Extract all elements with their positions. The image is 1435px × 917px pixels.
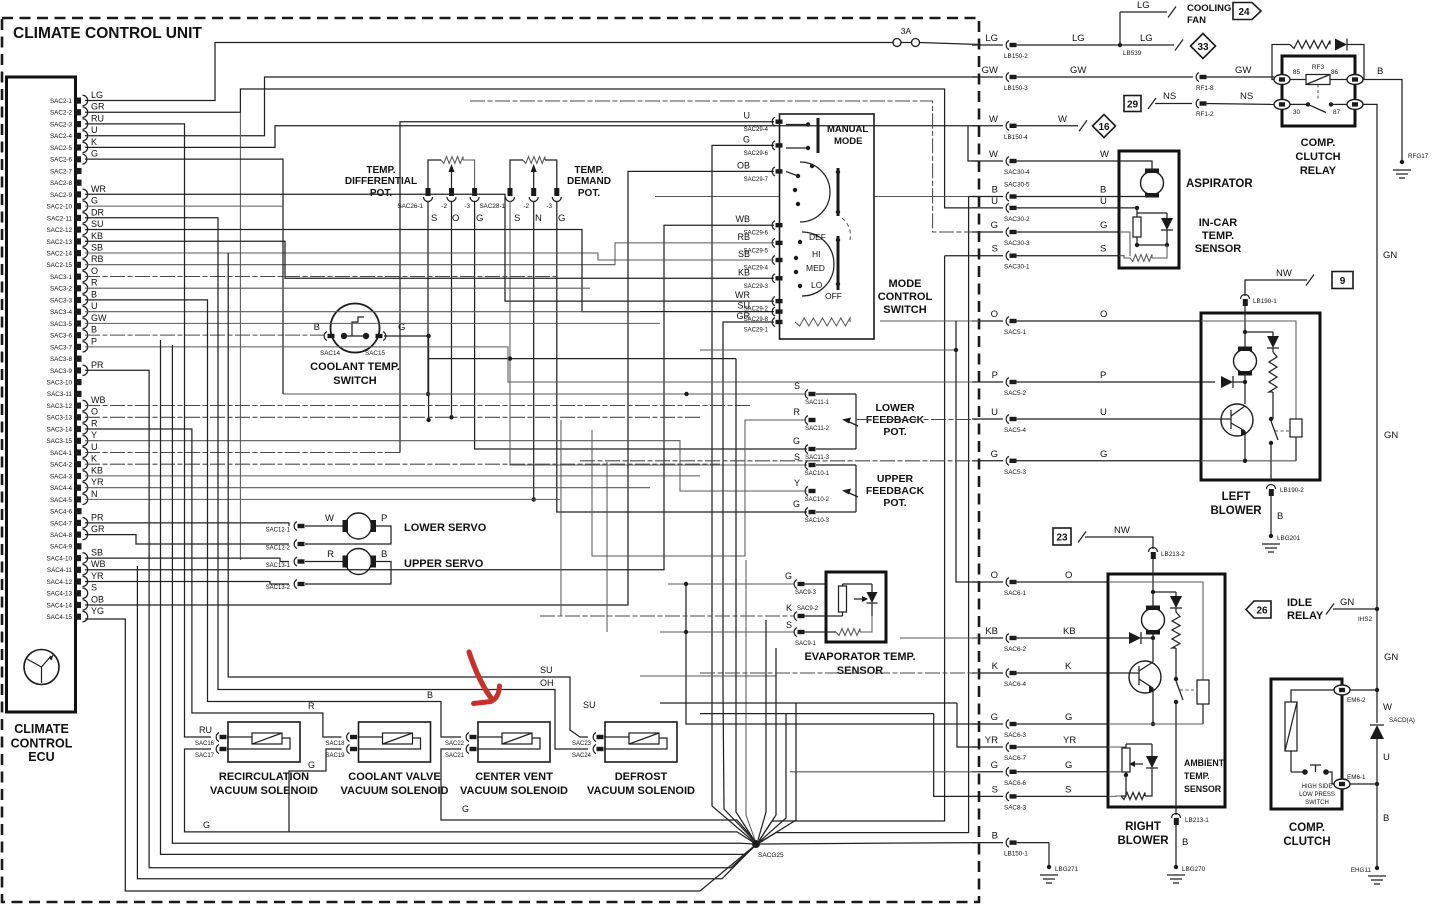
- svg-text:P: P: [91, 336, 97, 346]
- svg-text:U: U: [1383, 752, 1390, 763]
- svg-text:CLIMATE CONTROL UNIT: CLIMATE CONTROL UNIT: [13, 25, 202, 42]
- svg-text:G: G: [991, 220, 998, 231]
- svg-text:FAN: FAN: [1187, 15, 1206, 26]
- svg-text:P: P: [992, 370, 998, 381]
- svg-text:LBG271: LBG271: [1055, 866, 1079, 873]
- svg-text:TEMP.: TEMP.: [366, 165, 395, 176]
- svg-text:G: G: [91, 196, 98, 206]
- svg-text:B: B: [992, 185, 998, 196]
- svg-text:POT.: POT.: [370, 188, 392, 199]
- wire B segment to ground EHG11: [1351, 784, 1390, 874]
- svg-text:YR: YR: [1063, 735, 1076, 746]
- svg-text:IHS2: IHS2: [1358, 616, 1372, 623]
- svg-text:SAC10-3: SAC10-3: [805, 518, 830, 524]
- wire YR SAC4-12 to upper servo return: [85, 582, 289, 585]
- svg-text:SAC9-1: SAC9-1: [795, 641, 817, 647]
- label COMP. CLUTCH: [1283, 822, 1330, 848]
- svg-text:CLIMATE: CLIMATE: [14, 722, 69, 736]
- connector RF1-2 on NS wire: [1196, 91, 1274, 118]
- evaporator temp sensor SAC9 box: [804, 572, 915, 677]
- connector LB150-2 (LG) at enclosure border: [972, 33, 1120, 60]
- svg-text:VACUUM SOLENOID: VACUUM SOLENOID: [210, 785, 318, 797]
- wire B to ground LBG270: [1174, 825, 1206, 873]
- svg-text:30: 30: [1293, 109, 1301, 116]
- svg-text:SAC11-3: SAC11-3: [805, 455, 830, 461]
- svg-text:O: O: [452, 213, 459, 224]
- svg-text:G: G: [991, 712, 998, 723]
- wire OB to mode switch from SAC4-14: [85, 171, 774, 605]
- svg-text:DEMAND: DEMAND: [567, 176, 611, 187]
- svg-text:TEMP.: TEMP.: [1202, 230, 1234, 242]
- svg-text:SAC2-10: SAC2-10: [46, 204, 72, 211]
- svg-text:P: P: [1100, 370, 1106, 381]
- svg-text:Y: Y: [91, 430, 97, 440]
- svg-text:MODE: MODE: [889, 278, 922, 290]
- pin SAC3-14 (R): [46, 418, 98, 434]
- rotary switch upper wafer: [786, 162, 850, 240]
- svg-text:86: 86: [1331, 69, 1339, 76]
- svg-text:SU: SU: [91, 219, 104, 229]
- connector SAC6-2 (KB) at enclosure border: [972, 626, 1129, 653]
- splice SACG25 star point: [752, 840, 784, 859]
- wire GW row SAC3-5 extension: [85, 322, 660, 324]
- svg-text:SAC2-7: SAC2-7: [50, 168, 73, 175]
- svg-text:KB: KB: [985, 626, 998, 637]
- svg-text:RECIRCULATION: RECIRCULATION: [219, 771, 309, 783]
- svg-text:SAC3-5: SAC3-5: [50, 321, 73, 328]
- wire B to ground LBG201: [1269, 496, 1301, 542]
- wire KB row SAC4-3 extension: [85, 475, 700, 477]
- pin SAC4-8 (GR): [50, 524, 105, 540]
- svg-text:G: G: [91, 149, 98, 159]
- svg-text:WR: WR: [91, 184, 106, 194]
- svg-text:SAC3-10: SAC3-10: [46, 380, 72, 387]
- svg-text:SAC3-1: SAC3-1: [50, 274, 73, 281]
- diode SACD(A): [1370, 717, 1415, 739]
- svg-text:SAC4-12: SAC4-12: [46, 579, 72, 586]
- svg-text:GW: GW: [982, 65, 998, 76]
- label CLIMATE CONTROL ECU: [11, 722, 73, 764]
- pin SAC4-6 (unused): [50, 508, 82, 515]
- svg-text:N: N: [91, 489, 98, 499]
- wire N row SAC4-5 extension: [85, 498, 560, 500]
- svg-text:R: R: [327, 549, 334, 560]
- svg-text:O: O: [991, 309, 998, 320]
- svg-text:COOLANT TEMP.: COOLANT TEMP.: [310, 361, 400, 373]
- svg-text:COMP.: COMP.: [1301, 137, 1336, 149]
- connector LB213-1 below right blower: [1172, 814, 1210, 825]
- svg-text:16: 16: [1098, 122, 1110, 133]
- aspirator / in-car temp sensor box SAC30: [1119, 151, 1179, 268]
- svg-text:KB: KB: [1063, 626, 1076, 637]
- svg-text:S: S: [992, 244, 998, 255]
- connector SAC30-1 (S) at enclosure border: [972, 244, 1119, 271]
- wire S to evaporator sensor: [660, 630, 794, 634]
- wire to G SAC30-3 row: [470, 101, 979, 232]
- wire LG junction to cooling fan and 33: [1118, 0, 1183, 57]
- dashed enclosure border CLIMATE CONTROL UNIT: [2, 18, 979, 902]
- wire pot S pin down to row 394: [426, 201, 430, 396]
- svg-text:G: G: [203, 820, 210, 830]
- COOLANT VALVE VACUUM SOLENOID: [325, 722, 448, 797]
- svg-text:SAC11-1: SAC11-1: [805, 400, 830, 406]
- svg-text:SAC30-3: SAC30-3: [1004, 240, 1030, 247]
- temp demand pot SAC28: [479, 157, 611, 225]
- wire GR from SAC2-2 up, across to U SAC30-2 row: [85, 89, 979, 560]
- svg-text:GW: GW: [91, 313, 107, 323]
- relay bypass diode: [1335, 39, 1364, 80]
- svg-text:AMBIENT: AMBIENT: [1184, 758, 1225, 768]
- svg-text:YR: YR: [91, 477, 104, 487]
- wire U row to left blower base: [856, 419, 979, 421]
- connector SAC6-4 (K) at enclosure border: [972, 661, 1108, 688]
- svg-text:SAC2-12: SAC2-12: [46, 227, 72, 234]
- svg-text:IDLE: IDLE: [1287, 597, 1312, 609]
- pin SAC4-14 (OB): [46, 594, 104, 610]
- svg-text:COMP.: COMP.: [1289, 822, 1325, 834]
- svg-text:SAC30-5: SAC30-5: [1004, 182, 1030, 189]
- svg-text:RB: RB: [91, 254, 104, 264]
- wire WR to mode switch from SAC2-9: [85, 194, 774, 301]
- svg-text:U: U: [991, 196, 998, 207]
- svg-text:SACG25: SACG25: [758, 852, 784, 859]
- svg-text:GN: GN: [1384, 652, 1398, 663]
- ground LBG271: [1040, 875, 1058, 883]
- svg-text:G: G: [1065, 760, 1072, 771]
- wire segment y676: [640, 675, 776, 677]
- connector LB190-2 below left blower: [1267, 485, 1305, 497]
- svg-text:SAC3-13: SAC3-13: [46, 415, 72, 422]
- wire SB to mode switch from SAC2-14: [85, 253, 774, 260]
- svg-text:SAC2-4: SAC2-4: [50, 133, 73, 140]
- wire vertical bundle segment x607: [606, 462, 608, 632]
- wire G SAC2-6 riser to row 394: [85, 159, 283, 394]
- svg-text:W: W: [1058, 114, 1067, 125]
- svg-text:RFG17: RFG17: [1408, 153, 1429, 160]
- pin SAC4-11 (WB): [47, 559, 106, 575]
- junction riser at 686 down to G row SAC6-3: [686, 584, 979, 724]
- wire U to mode switch: [85, 122, 774, 453]
- svg-text:LG: LG: [1140, 33, 1153, 44]
- svg-text:SAC4-11: SAC4-11: [47, 567, 73, 574]
- svg-text:MODE: MODE: [834, 136, 863, 147]
- wire RB to mode switch from SAC2-15: [85, 243, 774, 265]
- svg-text:U: U: [991, 407, 998, 418]
- svg-text:3A: 3A: [901, 26, 912, 36]
- svg-text:G: G: [1100, 449, 1107, 460]
- svg-text:B: B: [91, 289, 97, 299]
- pin SAC2-4 (U): [50, 125, 98, 141]
- svg-text:-3: -3: [546, 203, 552, 210]
- svg-text:Y: Y: [794, 478, 800, 488]
- svg-text:SAC29-6: SAC29-6: [744, 151, 769, 157]
- pin SAC2-3 (RU): [50, 114, 104, 130]
- svg-text:SAC26-1: SAC26-1: [397, 203, 423, 210]
- connector SAC5-4 (U) at enclosure border: [972, 407, 1201, 434]
- wire pot S pin down to row 465: [510, 201, 807, 465]
- riser 712 into SACG25: [712, 690, 753, 841]
- svg-text:YR: YR: [91, 571, 104, 581]
- svg-text:SAC2-13: SAC2-13: [46, 239, 72, 246]
- svg-text:OH: OH: [540, 678, 554, 688]
- pin SAC2-11 (DR): [47, 207, 105, 223]
- svg-text:SAC29-1: SAC29-1: [744, 328, 769, 334]
- svg-text:G: G: [1100, 220, 1107, 231]
- wire WB to mode switch from SAC4-11: [85, 225, 774, 570]
- svg-text:SAC10-2: SAC10-2: [805, 497, 830, 503]
- manual mode contacts: [786, 118, 868, 153]
- svg-text:SU: SU: [583, 700, 596, 710]
- svg-text:NW: NW: [1114, 525, 1130, 536]
- wire B SAC30-5 row with long vertical down to SACG25: [655, 197, 979, 844]
- svg-text:LOW PRESS: LOW PRESS: [1299, 792, 1335, 798]
- svg-text:RF1-8: RF1-8: [1196, 85, 1214, 92]
- svg-text:R: R: [308, 701, 315, 711]
- wire recirculation solenoid return G to SACG25 rail: [185, 749, 757, 844]
- title CLIMATE CONTROL UNIT: [13, 25, 202, 42]
- svg-text:W: W: [989, 149, 998, 160]
- wire K row SAC4-2 extension: [85, 463, 720, 465]
- svg-text:O: O: [1100, 309, 1107, 320]
- wire O row SAC3-13 extension: [85, 416, 700, 418]
- svg-text:W: W: [989, 114, 998, 125]
- mode switch pin SAC29-6 (WB): [736, 214, 783, 237]
- wire KB to mode switch from SAC2-13: [85, 241, 774, 278]
- pin SAC4-5 (N): [50, 489, 98, 505]
- svg-text:GN: GN: [1383, 250, 1397, 261]
- connector SAC6-6 (G) at enclosure border: [972, 760, 1108, 787]
- coolant temp switch SAC14/SAC15: [310, 304, 405, 388]
- connector SAC5-2 (P) at enclosure border: [972, 370, 1215, 397]
- wire G row SAC2-10 stub: [85, 205, 283, 207]
- wire P row inline diode into left blower: [1221, 371, 1247, 404]
- wire B to coolant switch from SAC3-6: [85, 334, 327, 336]
- svg-text:SAC11-2: SAC11-2: [805, 426, 830, 432]
- pin SAC2-12 (SU): [46, 219, 103, 235]
- svg-text:SAC9-3: SAC9-3: [795, 590, 817, 596]
- wire K from SAC2-5 up, across to W rows: [85, 126, 979, 161]
- pin SAC2-7 (unused): [50, 168, 82, 176]
- svg-text:29: 29: [1127, 100, 1139, 111]
- svg-text:KB: KB: [738, 267, 750, 277]
- svg-text:SAC4-2: SAC4-2: [50, 462, 73, 469]
- left blower power transistor: [1201, 404, 1253, 461]
- connector SAC30-3 (G) at enclosure border: [972, 220, 1119, 247]
- svg-text:FEEDBACK: FEEDBACK: [866, 485, 925, 497]
- pin SAC4-13 (S): [46, 583, 97, 599]
- svg-text:S: S: [91, 583, 97, 593]
- mode switch pin SAC29-1 (GR): [737, 311, 783, 334]
- svg-text:SAC5-2: SAC5-2: [1004, 390, 1027, 397]
- svg-text:YR: YR: [985, 735, 998, 746]
- mode switch pin SAC29-4 (U): [744, 111, 783, 134]
- pin SAC4-12 (YR): [46, 571, 104, 587]
- svg-text:9: 9: [1340, 276, 1346, 287]
- svg-text:SAC2-9: SAC2-9: [50, 192, 73, 199]
- wire KB row left extension: [900, 637, 979, 639]
- svg-text:G: G: [793, 436, 800, 446]
- svg-text:SAC2-8: SAC2-8: [50, 180, 73, 187]
- wire G row SAC6-6 left extension: [790, 771, 979, 773]
- svg-text:OFF: OFF: [825, 291, 842, 301]
- svg-text:SAC12-2: SAC12-2: [266, 546, 291, 552]
- svg-text:SAC4-15: SAC4-15: [46, 614, 72, 621]
- wire O bus SAC5-1 to SAC6-1: [880, 321, 979, 582]
- wire rail 842 into SACG25: [172, 345, 754, 844]
- wire vertical bundle segment x561: [560, 420, 562, 616]
- wire pot O pin down to O row 417: [449, 201, 453, 419]
- upper feedback pot SAC10: [793, 452, 925, 524]
- svg-text:SENSOR: SENSOR: [837, 665, 884, 677]
- svg-text:WR: WR: [735, 290, 750, 300]
- wire pot G pin down to row 449: [475, 201, 807, 449]
- svg-text:87: 87: [1333, 109, 1341, 116]
- wire PR SAC4-7 to lower servo: [85, 523, 289, 526]
- ground LBG201: [1262, 544, 1280, 552]
- svg-text:U: U: [744, 111, 751, 121]
- svg-text:SAC2-2: SAC2-2: [50, 110, 73, 117]
- svg-text:SAC28-1: SAC28-1: [479, 203, 505, 210]
- wire GN main vertical from relay 87: [1363, 104, 1398, 609]
- wire R to coolant valve solenoid from SAC3-14: [85, 429, 342, 737]
- svg-text:SAC5-3: SAC5-3: [1004, 469, 1027, 476]
- svg-text:N: N: [535, 213, 542, 224]
- svg-text:SAC14: SAC14: [320, 350, 340, 357]
- svg-text:S: S: [786, 620, 792, 630]
- connector LB150-3 (GW) at enclosure border: [972, 65, 1193, 92]
- svg-text:LBG201: LBG201: [1277, 535, 1301, 542]
- wire pot N pin down to N row 499: [532, 201, 536, 502]
- mode switch pin SAC29-6 (G): [743, 134, 783, 157]
- svg-text:26: 26: [1256, 606, 1268, 617]
- wire Y row to upper feedback pot from SAC3-15: [85, 441, 807, 491]
- svg-text:VACUUM SOLENOID: VACUUM SOLENOID: [460, 785, 568, 797]
- riser 796 with horizontal 703 (YR net): [660, 703, 979, 843]
- lower feedback pot SAC11: [793, 381, 925, 461]
- right blower power transistor: [1108, 661, 1161, 726]
- pin SAC3-5 (GW): [50, 313, 107, 329]
- wire LG from SAC2-1 up to fuse line: [85, 43, 893, 101]
- connector LB213-2: [1149, 548, 1186, 560]
- right blower relay coil: [1197, 680, 1209, 724]
- svg-text:RF3: RF3: [1312, 64, 1325, 71]
- pin SAC2-10 (G): [46, 196, 98, 212]
- svg-text:R: R: [91, 418, 98, 428]
- svg-text:W: W: [1383, 702, 1392, 713]
- svg-text:SAC4-3: SAC4-3: [50, 473, 73, 480]
- svg-text:W: W: [1100, 149, 1109, 160]
- pin SAC2-5 (K): [50, 137, 97, 153]
- pin SAC3-7 (P): [50, 336, 97, 352]
- svg-text:SAC6-6: SAC6-6: [1004, 780, 1027, 787]
- svg-text:DEF: DEF: [809, 232, 826, 242]
- svg-text:G: G: [991, 760, 998, 771]
- svg-text:LBG270: LBG270: [1182, 866, 1206, 873]
- svg-text:O: O: [1065, 570, 1072, 581]
- wire B to center vent solenoid from SAC3-3: [85, 300, 461, 737]
- connector SAC30-5 (B) at enclosure border: [972, 182, 1119, 202]
- connector RF1-8 on GW wire: [1196, 65, 1274, 92]
- pin SAC4-15 (YG): [46, 606, 104, 622]
- svg-text:LG: LG: [1137, 0, 1150, 11]
- wire K to evaporator sensor: [540, 615, 794, 617]
- svg-text:LB150-2: LB150-2: [1004, 53, 1028, 60]
- connector LB150-4 (W) at enclosure border: [972, 114, 1078, 141]
- svg-text:B: B: [1100, 185, 1106, 196]
- svg-text:TEMP.: TEMP.: [574, 165, 603, 176]
- svg-text:SB: SB: [91, 243, 103, 253]
- svg-text:PR: PR: [91, 512, 104, 522]
- svg-text:CONTROL: CONTROL: [11, 737, 73, 751]
- svg-text:HIGH SIDE: HIGH SIDE: [1302, 784, 1333, 790]
- pin SAC3-3 (B): [50, 289, 97, 305]
- pin SAC4-9 (unused): [50, 543, 82, 551]
- wire G row bottom rail of right blower: [1108, 723, 1203, 725]
- pin SAC3-9 (PR): [50, 360, 104, 376]
- pin SAC3-1 (O): [50, 266, 98, 282]
- wire SU to mode switch from SAC2-12: [85, 230, 774, 312]
- pin SAC2-8 (unused): [50, 180, 82, 188]
- wire GN continue to comp clutch EM6-2: [1375, 609, 1399, 723]
- wire G row bottom rail of left blower: [1201, 459, 1296, 463]
- svg-text:DIFFERENTIAL: DIFFERENTIAL: [345, 176, 417, 187]
- wire R row SAC3-2 extension: [85, 287, 590, 289]
- svg-text:EVAPORATOR TEMP.: EVAPORATOR TEMP.: [804, 651, 915, 663]
- svg-text:OB: OB: [91, 594, 104, 604]
- svg-text:LB150-4: LB150-4: [1004, 134, 1028, 141]
- pin SAC4-10 (SB): [46, 548, 103, 564]
- svg-text:SAC29-4: SAC29-4: [744, 127, 769, 133]
- svg-text:SAC13-1: SAC13-1: [266, 563, 291, 569]
- svg-text:GW: GW: [1235, 65, 1251, 76]
- evaporator pin SAC9-1 (S): [786, 620, 826, 647]
- connector SAC30-4 (W) at enclosure border: [972, 149, 1119, 176]
- svg-text:SAC15: SAC15: [365, 350, 385, 357]
- wire PR SAC3-9 rail 866 into SACG25: [85, 370, 755, 867]
- mode switch pin SAC29-7 (OB): [737, 160, 783, 183]
- connector SAC8-3 (S) at enclosure border: [972, 784, 1108, 811]
- right blower box: [1108, 574, 1225, 807]
- ground RFG17: [1393, 170, 1411, 178]
- wire G to mode switch (riser): [712, 145, 774, 690]
- wire K row left extension: [700, 672, 979, 674]
- svg-text:RELAY: RELAY: [1287, 610, 1324, 622]
- svg-text:-3: -3: [464, 203, 470, 210]
- ground EHG11: [1368, 876, 1386, 884]
- svg-text:G: G: [793, 499, 800, 509]
- fuse 3A on LG line: [893, 26, 979, 47]
- svg-text:MED: MED: [806, 263, 825, 273]
- wire G from coolant switch to junction: [384, 334, 431, 422]
- svg-text:VACUUM SOLENOID: VACUUM SOLENOID: [341, 785, 449, 797]
- svg-text:YG: YG: [91, 606, 104, 616]
- comp clutch coil: [1285, 690, 1335, 772]
- svg-text:U: U: [1100, 196, 1107, 207]
- svg-text:SAC5-1: SAC5-1: [1004, 329, 1027, 336]
- svg-text:SAC13-2: SAC13-2: [266, 585, 291, 591]
- pin SAC4-2 (K): [50, 454, 97, 470]
- svg-text:B: B: [1277, 511, 1283, 522]
- svg-text:CENTER VENT: CENTER VENT: [475, 771, 553, 783]
- wire WB row SAC3-12 extension: [85, 405, 751, 407]
- connector SAC6-3 (G) at enclosure border: [972, 712, 1108, 739]
- svg-text:LB190-2: LB190-2: [1280, 487, 1304, 494]
- svg-text:SAC3-15: SAC3-15: [46, 438, 72, 445]
- mode switch pin SAC29-2 (WR): [735, 290, 783, 313]
- svg-text:SWITCH: SWITCH: [1305, 800, 1329, 806]
- svg-text:KB: KB: [91, 231, 103, 241]
- svg-text:R: R: [794, 407, 801, 417]
